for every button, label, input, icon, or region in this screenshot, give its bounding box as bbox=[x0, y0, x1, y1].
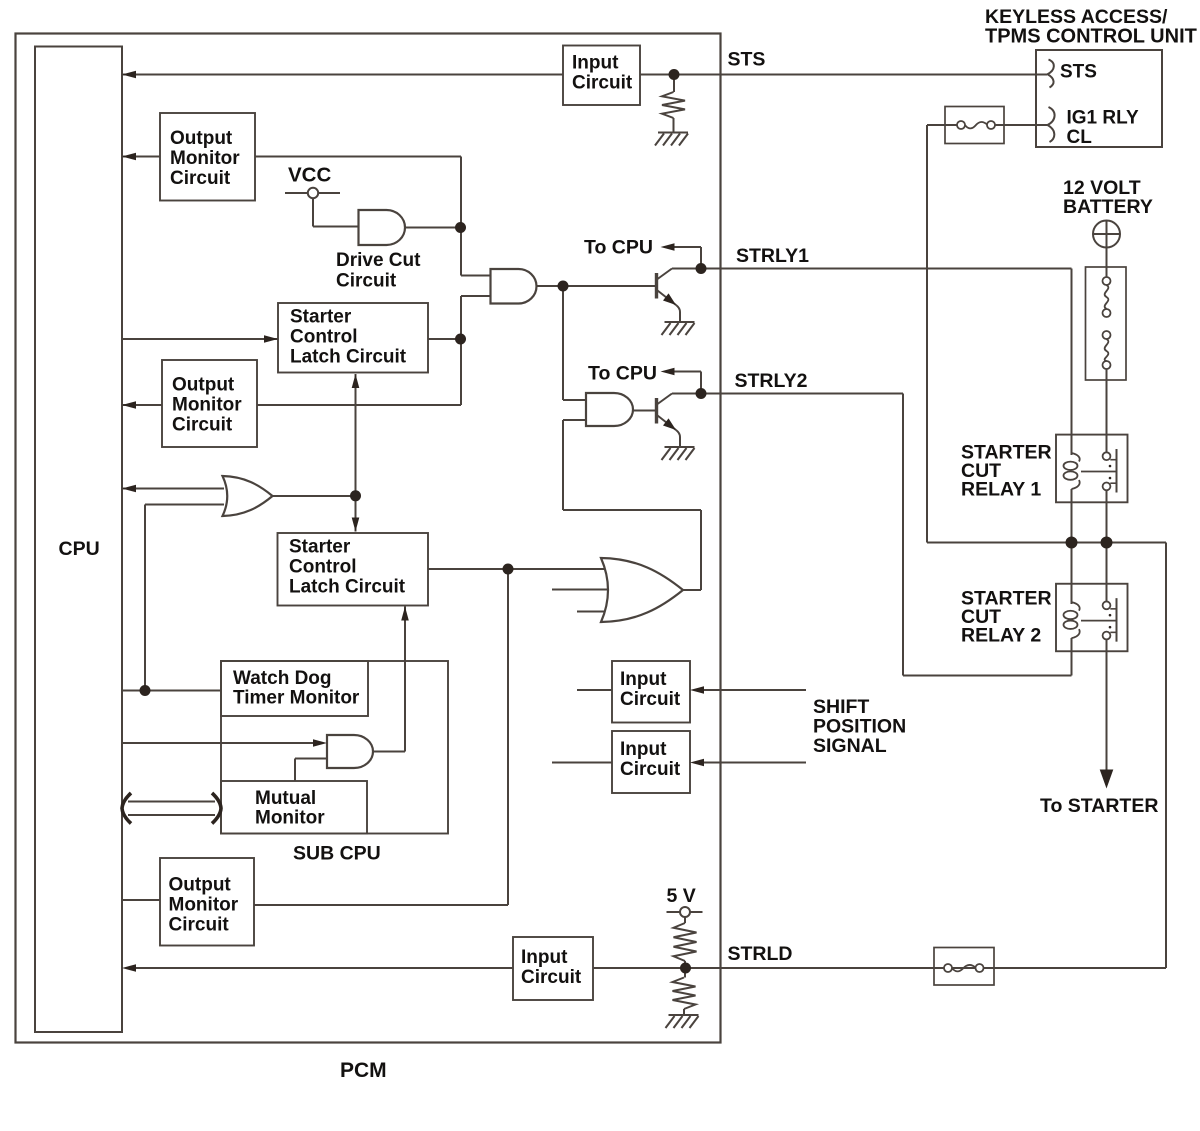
svg-text:Input: Input bbox=[572, 53, 619, 74]
svg-text:STRLY2: STRLY2 bbox=[735, 370, 808, 392]
svg-text:Latch Circuit: Latch Circuit bbox=[290, 347, 407, 368]
svg-text:Monitor: Monitor bbox=[169, 895, 239, 916]
svg-text:Circuit: Circuit bbox=[172, 415, 233, 436]
svg-text:Monitor: Monitor bbox=[170, 148, 240, 169]
svg-text:Mutual: Mutual bbox=[255, 788, 316, 809]
svg-text:Timer Monitor: Timer Monitor bbox=[233, 688, 360, 709]
svg-text:Output: Output bbox=[169, 875, 232, 896]
svg-text:Circuit: Circuit bbox=[572, 73, 633, 94]
svg-text:TPMS CONTROL UNIT: TPMS CONTROL UNIT bbox=[985, 26, 1197, 48]
svg-text:STS: STS bbox=[728, 49, 766, 71]
svg-text:Latch Circuit: Latch Circuit bbox=[289, 577, 406, 598]
svg-text:To CPU: To CPU bbox=[584, 237, 653, 259]
svg-text:Output: Output bbox=[170, 128, 233, 149]
svg-text:STRLY1: STRLY1 bbox=[736, 245, 809, 267]
svg-text:Input: Input bbox=[521, 947, 568, 968]
svg-text:SIGNAL: SIGNAL bbox=[813, 735, 887, 757]
svg-text:5 V: 5 V bbox=[667, 885, 696, 907]
svg-text:CPU: CPU bbox=[59, 538, 100, 560]
svg-text:STRLD: STRLD bbox=[728, 943, 793, 965]
svg-text:PCM: PCM bbox=[340, 1059, 387, 1082]
svg-text:SUB CPU: SUB CPU bbox=[293, 843, 381, 865]
svg-text:RELAY 1: RELAY 1 bbox=[961, 479, 1041, 501]
svg-text:Circuit: Circuit bbox=[169, 915, 230, 936]
svg-text:Drive Cut: Drive Cut bbox=[336, 250, 421, 271]
svg-text:Monitor: Monitor bbox=[255, 808, 325, 829]
svg-text:Input: Input bbox=[620, 669, 667, 690]
svg-text:BATTERY: BATTERY bbox=[1063, 196, 1153, 218]
svg-text:RELAY 2: RELAY 2 bbox=[961, 625, 1041, 647]
svg-text:Starter: Starter bbox=[289, 537, 351, 558]
svg-text:Starter: Starter bbox=[290, 307, 352, 328]
svg-text:Circuit: Circuit bbox=[620, 689, 681, 710]
svg-text:IG1 RLY: IG1 RLY bbox=[1067, 108, 1139, 129]
svg-text:Watch Dog: Watch Dog bbox=[233, 668, 332, 689]
svg-text:To CPU: To CPU bbox=[588, 363, 657, 385]
svg-text:Circuit: Circuit bbox=[170, 168, 231, 189]
svg-text:Circuit: Circuit bbox=[336, 271, 397, 292]
svg-text:Circuit: Circuit bbox=[620, 759, 681, 780]
svg-text:VCC: VCC bbox=[288, 164, 331, 187]
svg-text:Circuit: Circuit bbox=[521, 967, 582, 988]
svg-text:Control: Control bbox=[289, 557, 357, 578]
svg-text:Input: Input bbox=[620, 739, 667, 760]
svg-text:STS: STS bbox=[1060, 62, 1097, 83]
svg-text:Control: Control bbox=[290, 327, 358, 348]
svg-text:Monitor: Monitor bbox=[172, 395, 242, 416]
svg-text:CL: CL bbox=[1067, 127, 1093, 148]
svg-text:To STARTER: To STARTER bbox=[1040, 795, 1158, 817]
svg-text:Output: Output bbox=[172, 375, 235, 396]
